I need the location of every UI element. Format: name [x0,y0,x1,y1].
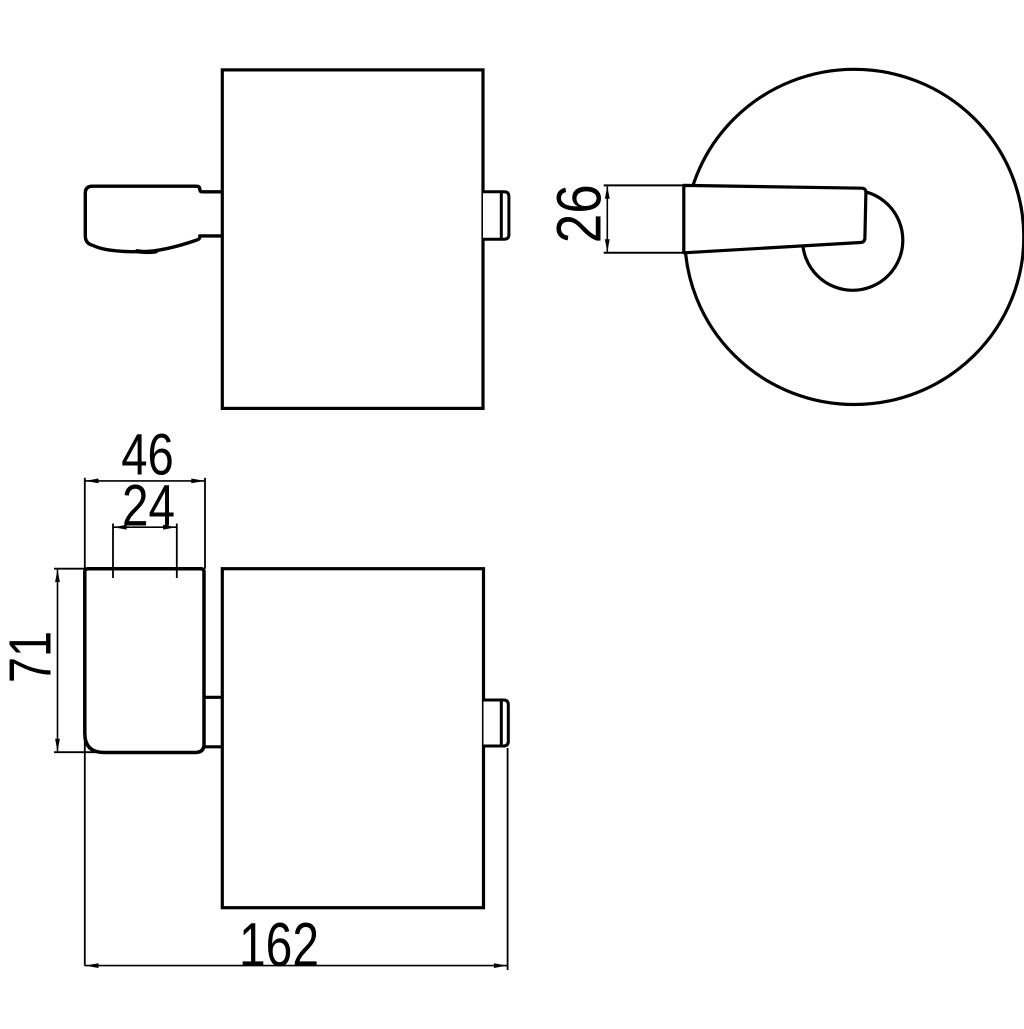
top view: tab inner line [500,700,503,746]
top view: neck top line [204,696,222,699]
dim 46: left extension line (shared with 162) [84,478,86,966]
dim 26: dimension line [606,187,608,252]
dim 46: dimension line [85,480,205,482]
dim 46: left arrow [85,479,98,484]
dim 24: right arrow [163,525,176,530]
dim 162: right extension line [507,748,509,970]
side view: lever arm (covers circles) [684,185,866,252]
front view: tab inner line [500,192,503,239]
dim 24: left arrow [113,525,126,530]
top view: neck bottom line [204,745,222,748]
top view: main body rectangle [222,569,483,908]
dim 24: right extension line [176,524,178,579]
top view: lever plate [85,569,204,753]
dim 71: bottom extension line [54,751,103,753]
dim 26: top extension line [604,184,684,186]
dim 162: right arrow [494,963,507,968]
dim 26: bottom extension line [604,252,690,254]
svg-text:162: 162 [239,910,319,980]
dim 71: down arrow [55,739,60,752]
dim 26: down arrow [605,239,610,252]
dim 162: left arrow [85,963,98,968]
svg-text:26: 26 [545,184,615,243]
dim 162: dimension line [85,965,508,967]
dim 46: right arrow [191,479,204,484]
svg-text:24: 24 [122,473,175,538]
dim 46: right extension line [204,478,206,569]
front view: right pin tab [483,192,509,239]
side view: inner core circle [803,190,903,290]
dim 24: dimension line [113,526,177,528]
front view: lever handle [85,186,222,252]
front view: handle lowlight thick spot [137,249,156,254]
svg-text:71: 71 [0,631,64,683]
dim 71: top extension line [54,568,85,570]
dim 26: up arrow [605,186,610,199]
dim 71: dimension line [57,570,59,751]
dim 71: up arrow [55,569,60,582]
dim 24: left extension line [112,524,114,579]
front view: main body rectangle [222,70,483,409]
top view: right pin tab [484,700,509,746]
side view: paper roll outer circle [685,69,1024,404]
